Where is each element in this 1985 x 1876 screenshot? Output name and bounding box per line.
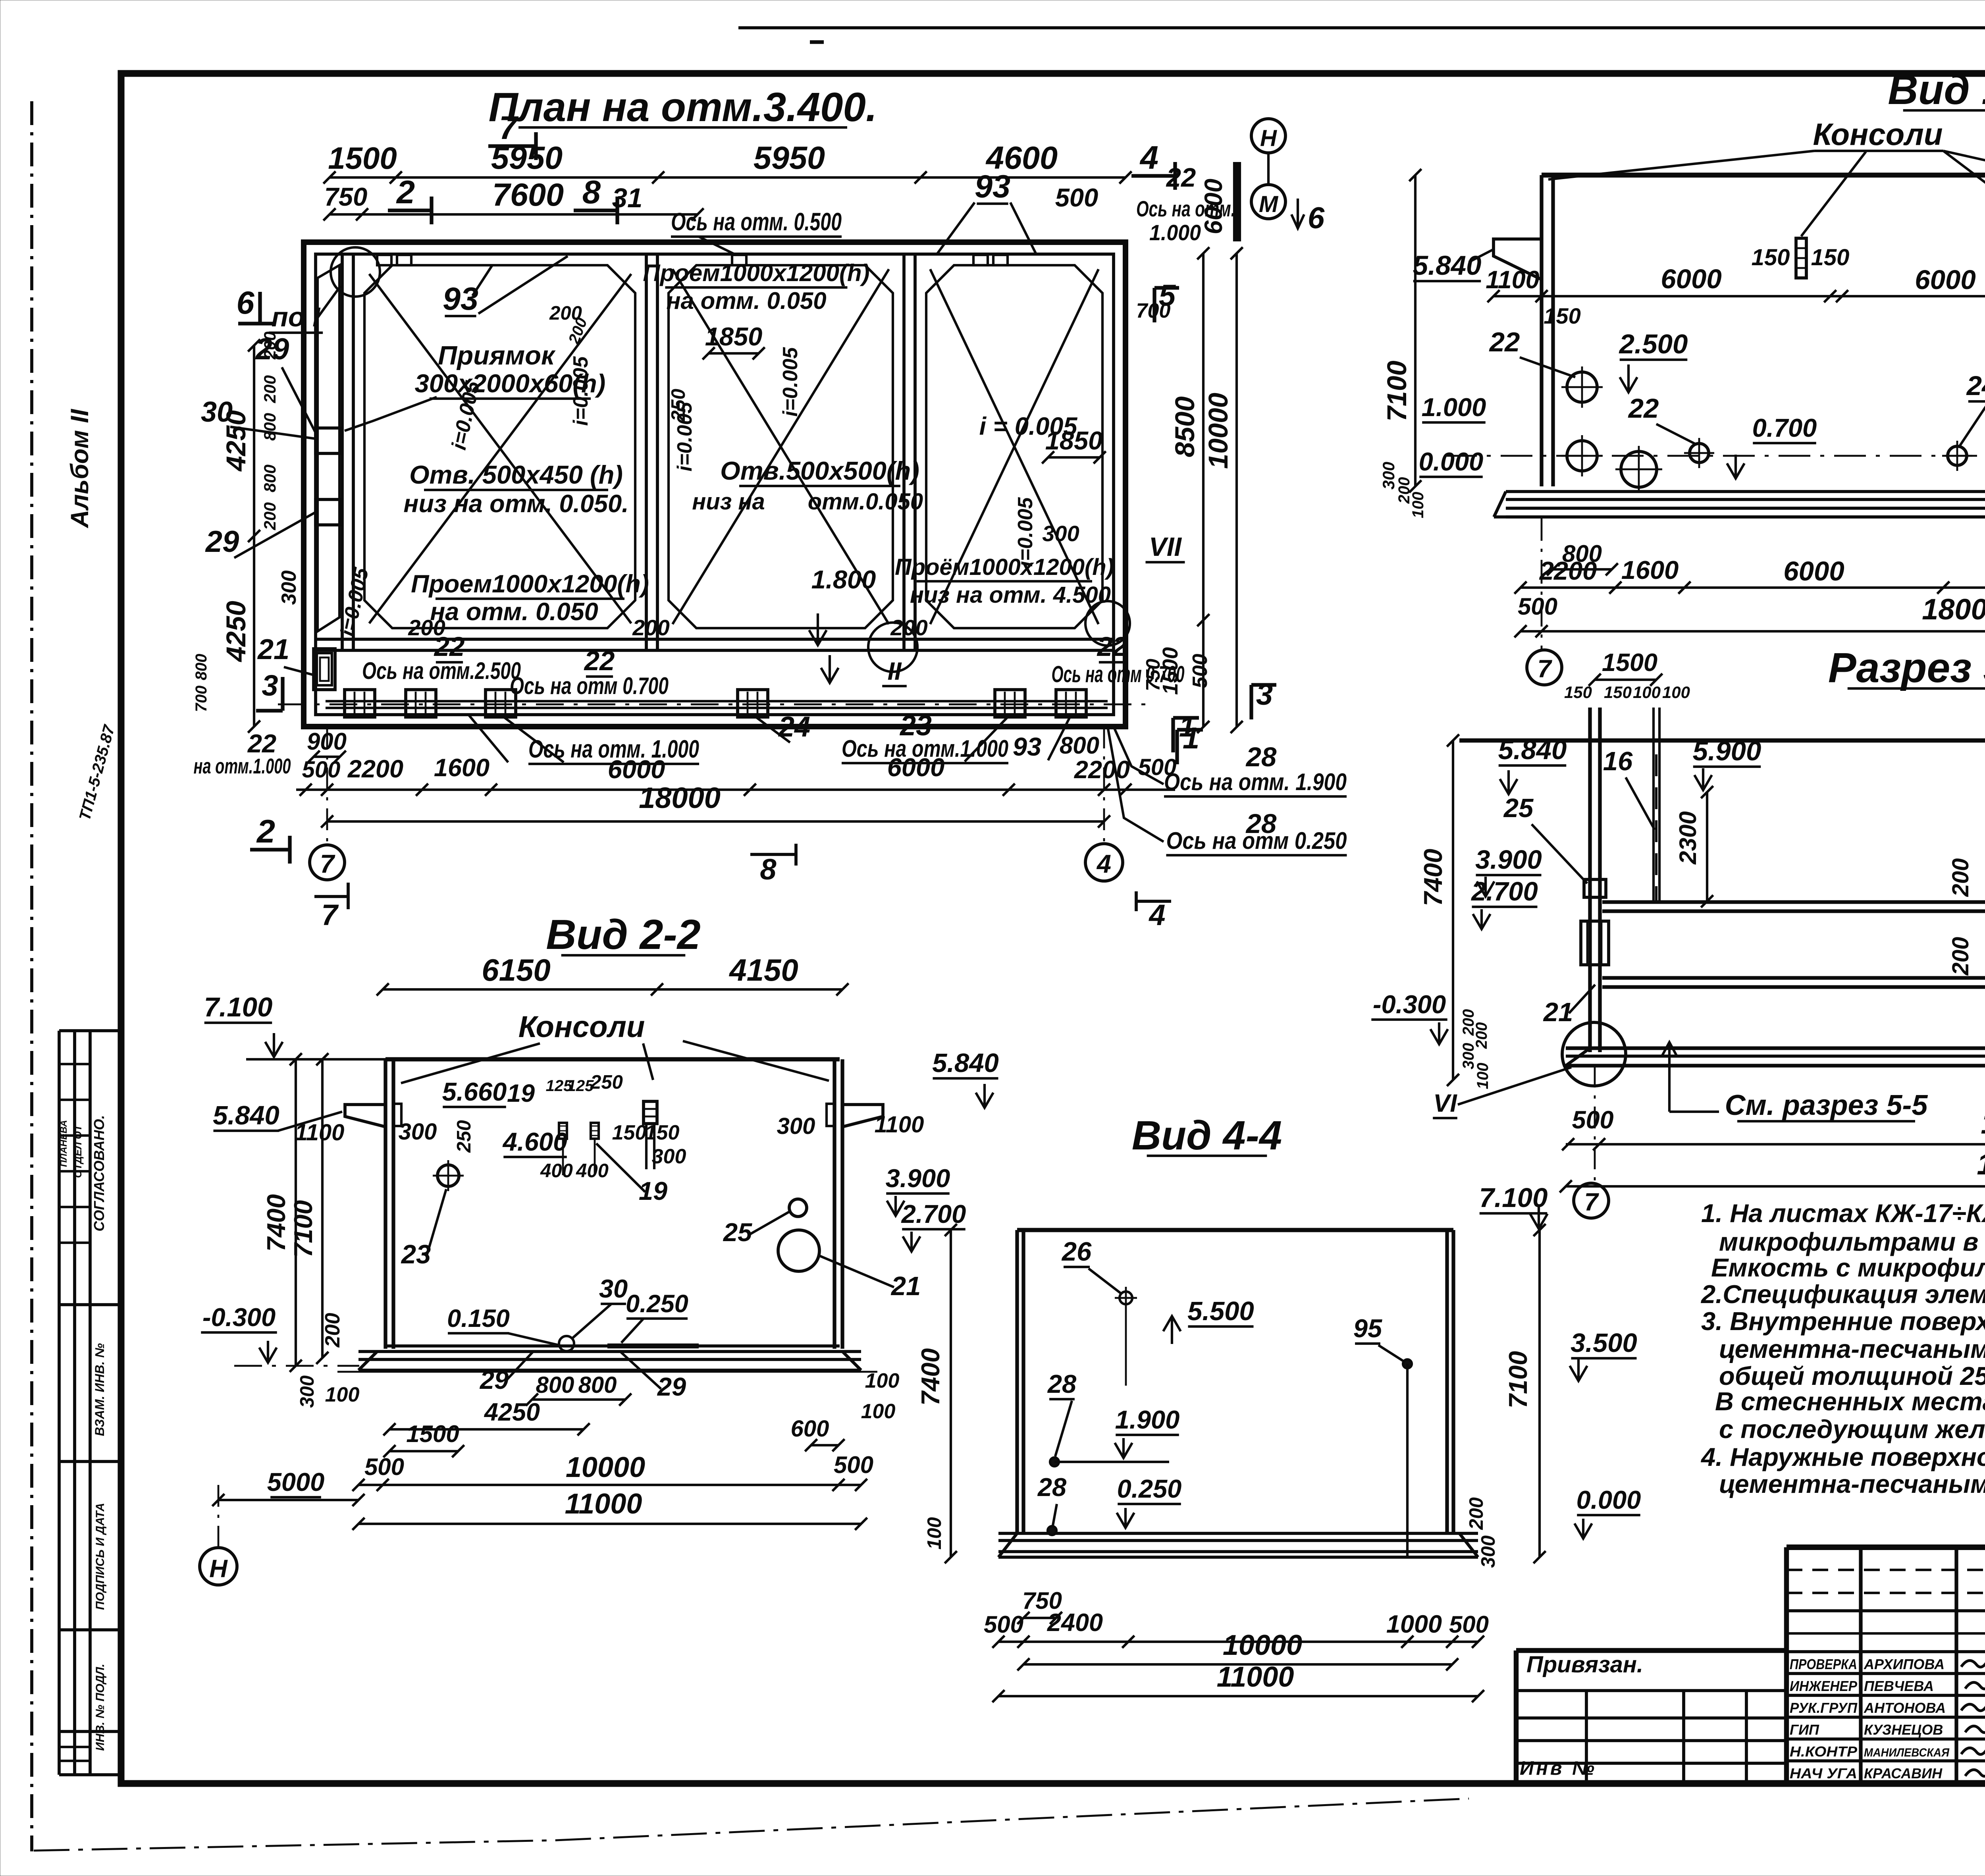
svg-text:150: 150	[1604, 683, 1632, 702]
svg-text:30: 30	[201, 396, 233, 428]
svg-text:6: 6	[236, 285, 254, 321]
svg-text:95: 95	[1353, 1314, 1382, 1343]
svg-text:3: 3	[1256, 678, 1273, 711]
svg-text:Отв.500х500(h): Отв.500х500(h)	[720, 456, 919, 485]
svg-text:Емкость с микрофильтрами в ося: Емкость с микрофильтрами в осях 11-14 зе…	[1711, 1253, 1985, 1282]
svg-text:200: 200	[260, 375, 279, 403]
svg-text:См. разрез 5-5: См. разрез 5-5	[1725, 1089, 1928, 1121]
svg-text:1000: 1000	[1386, 1610, 1442, 1638]
svg-text:150: 150	[1544, 303, 1580, 328]
svg-text:6000: 6000	[1783, 556, 1844, 586]
svg-text:100: 100	[924, 1517, 945, 1550]
svg-text:с последующим железнением.: с последующим железнением.	[1719, 1415, 1985, 1444]
svg-text:6000: 6000	[1915, 264, 1976, 295]
svg-text:ИНЖЕНЕР: ИНЖЕНЕР	[1790, 1678, 1858, 1694]
svg-text:7.100: 7.100	[1479, 1182, 1548, 1213]
svg-text:1.900: 1.900	[1115, 1405, 1180, 1434]
svg-text:500: 500	[1449, 1611, 1489, 1638]
svg-text:29: 29	[479, 1365, 509, 1394]
svg-text:25: 25	[1503, 793, 1534, 823]
svg-text:5000: 5000	[267, 1467, 325, 1496]
svg-text:8: 8	[760, 853, 777, 886]
svg-text:7100: 7100	[1382, 361, 1412, 422]
svg-text:100: 100	[1662, 683, 1690, 702]
svg-text:6: 6	[1308, 201, 1325, 235]
svg-text:Вид 4-4: Вид 4-4	[1132, 1112, 1282, 1158]
svg-text:1.000: 1.000	[1422, 393, 1486, 422]
svg-text:Альбом II: Альбом II	[66, 409, 94, 528]
svg-text:150: 150	[645, 1121, 680, 1144]
svg-text:цементна-песчаным раствором со: цементна-песчаным раствором состава 1:3.	[1719, 1469, 1985, 1498]
svg-text:300: 300	[1379, 462, 1398, 490]
svg-text:5.500: 5.500	[1187, 1296, 1254, 1326]
svg-text:2200: 2200	[347, 755, 403, 783]
svg-text:3.900: 3.900	[1475, 845, 1542, 875]
svg-text:цементна-песчаным раствором со: цементна-песчаным раствором состава 1:2.…	[1719, 1334, 1985, 1363]
svg-text:28: 28	[1047, 1369, 1077, 1398]
svg-text:3.500: 3.500	[1571, 1328, 1637, 1358]
svg-text:7: 7	[320, 849, 335, 878]
svg-text:-0.300: -0.300	[1373, 990, 1446, 1019]
svg-text:ПЕВЧЕВА: ПЕВЧЕВА	[1864, 1678, 1934, 1694]
svg-text:ГИП: ГИП	[1790, 1722, 1819, 1738]
svg-text:200: 200	[1948, 858, 1973, 897]
svg-text:Консоли: Консоли	[1813, 117, 1943, 152]
svg-text:АНТОНОВА: АНТОНОВА	[1864, 1700, 1946, 1716]
svg-text:4: 4	[1096, 849, 1111, 878]
svg-text:3. Внутренние поверхности емко: 3. Внутренние поверхности емкости торкре…	[1701, 1307, 1985, 1336]
svg-text:на отм. 0.050: на отм. 0.050	[666, 287, 826, 314]
svg-text:2: 2	[396, 174, 415, 210]
svg-text:300: 300	[297, 1375, 318, 1408]
svg-text:6000: 6000	[1661, 264, 1722, 294]
svg-text:0.150: 0.150	[447, 1305, 510, 1332]
svg-text:500: 500	[302, 757, 341, 783]
svg-text:19000: 19000	[1977, 1147, 1985, 1181]
svg-text:МАНИЛЕВСКАЯ: МАНИЛЕВСКАЯ	[1864, 1746, 1950, 1759]
svg-text:750: 750	[324, 182, 367, 211]
svg-text:ВЗАМ. ИНВ. №: ВЗАМ. ИНВ. №	[93, 1343, 107, 1436]
svg-text:600: 600	[791, 1416, 829, 1442]
svg-text:1600: 1600	[434, 754, 490, 782]
svg-text:10000: 10000	[1223, 1629, 1302, 1661]
svg-text:Н: Н	[209, 1555, 228, 1583]
svg-text:100: 100	[1633, 683, 1661, 702]
svg-text:800: 800	[578, 1372, 617, 1398]
svg-text:2300: 2300	[1675, 811, 1701, 864]
svg-text:800: 800	[1060, 732, 1099, 759]
svg-text:7: 7	[1584, 1188, 1599, 1216]
svg-text:4.600: 4.600	[502, 1127, 568, 1156]
svg-text:НАЧ УГА: НАЧ УГА	[1790, 1765, 1857, 1782]
svg-text:2200: 2200	[1074, 756, 1130, 784]
svg-text:6000: 6000	[608, 755, 665, 784]
svg-text:400: 400	[576, 1160, 609, 1182]
svg-text:i = 0.005: i = 0.005	[979, 413, 1078, 440]
svg-text:ОТДЕЛ ОТ: ОТДЕЛ ОТ	[72, 1124, 84, 1178]
svg-text:отм.0.050: отм.0.050	[808, 489, 923, 515]
svg-text:i=0.005: i=0.005	[1014, 497, 1037, 567]
svg-text:Вид 1-1: Вид 1-1	[1888, 66, 1985, 113]
svg-text:5.840: 5.840	[213, 1101, 279, 1130]
svg-text:10000: 10000	[566, 1452, 645, 1483]
svg-text:500: 500	[364, 1454, 404, 1480]
svg-text:Ось на отм 0.700: Ось на отм 0.700	[510, 673, 669, 699]
svg-text:1500: 1500	[406, 1421, 459, 1447]
svg-text:1100: 1100	[295, 1120, 345, 1145]
svg-text:8500: 8500	[1170, 396, 1200, 457]
svg-text:6000: 6000	[887, 753, 945, 782]
svg-text:по I: по I	[272, 302, 321, 332]
svg-text:4. Наружные поверхности емкост: 4. Наружные поверхности емкости затереть	[1700, 1442, 1985, 1471]
svg-text:150: 150	[1564, 683, 1592, 702]
svg-text:7: 7	[499, 109, 519, 146]
svg-text:6000: 6000	[1200, 179, 1228, 234]
svg-text:100: 100	[1409, 492, 1427, 519]
svg-text:300: 300	[399, 1119, 437, 1145]
svg-text:Приямок: Приямок	[438, 341, 556, 370]
svg-text:19: 19	[507, 1080, 535, 1107]
svg-text:100: 100	[861, 1400, 896, 1423]
svg-text:11000: 11000	[565, 1488, 642, 1520]
svg-text:25: 25	[723, 1218, 752, 1247]
svg-text:22: 22	[1628, 393, 1659, 424]
svg-text:7400: 7400	[916, 1348, 945, 1406]
svg-text:2.500: 2.500	[1619, 329, 1688, 359]
svg-text:1600: 1600	[1621, 555, 1679, 584]
svg-text:СОГЛАСОВАНО.: СОГЛАСОВАНО.	[91, 1115, 107, 1231]
svg-text:Ось на отм 0.700: Ось на отм 0.700	[1052, 661, 1185, 687]
svg-text:Привязан.: Привязан.	[1526, 1652, 1643, 1677]
svg-text:29: 29	[255, 332, 289, 366]
svg-text:низ на отм. 0.050.: низ на отм. 0.050.	[403, 490, 628, 518]
svg-text:Ось на отм 0.250: Ось на отм 0.250	[1166, 827, 1347, 854]
svg-text:22: 22	[1097, 631, 1128, 662]
svg-text:В стесненных местах штукатурка: В стесненных местах штукатурка наносится…	[1715, 1387, 1985, 1416]
svg-text:300: 300	[278, 571, 301, 605]
svg-text:Н: Н	[1260, 125, 1277, 151]
svg-text:29: 29	[205, 525, 239, 559]
svg-text:125: 125	[567, 1077, 594, 1095]
svg-text:i=0.005: i=0.005	[779, 347, 802, 416]
svg-text:21: 21	[257, 634, 289, 665]
svg-text:3: 3	[262, 669, 278, 702]
svg-text:7600: 7600	[492, 177, 564, 213]
svg-text:Проем1000х1200(h): Проем1000х1200(h)	[643, 260, 869, 286]
svg-text:7400: 7400	[262, 1194, 291, 1252]
svg-text:7100: 7100	[1503, 1351, 1532, 1409]
svg-text:7: 7	[321, 898, 339, 931]
svg-text:200: 200	[321, 1313, 344, 1348]
svg-text:2: 2	[256, 813, 275, 850]
svg-text:700: 700	[193, 686, 210, 712]
svg-text:Н.КОНТР: Н.КОНТР	[1790, 1743, 1858, 1760]
svg-text:VI: VI	[1433, 1089, 1457, 1117]
svg-text:4250: 4250	[221, 601, 251, 663]
svg-text:5.900: 5.900	[1693, 736, 1761, 766]
svg-text:500: 500	[1189, 654, 1212, 688]
svg-text:26: 26	[1061, 1237, 1092, 1267]
svg-text:1100: 1100	[875, 1112, 924, 1138]
svg-text:18000: 18000	[639, 781, 721, 814]
svg-text:микрофильтрами в осях 4-7.: микрофильтрами в осях 4-7.	[1719, 1227, 1985, 1256]
svg-text:800: 800	[536, 1372, 574, 1398]
svg-text:1.000: 1.000	[1149, 220, 1201, 245]
svg-text:0.000: 0.000	[1576, 1485, 1641, 1514]
svg-text:200: 200	[1948, 937, 1973, 976]
svg-text:10000: 10000	[1203, 393, 1233, 469]
svg-text:i=0.005: i=0.005	[569, 356, 592, 426]
svg-text:300: 300	[777, 1113, 815, 1139]
svg-text:КРАСАВИН: КРАСАВИН	[1864, 1765, 1943, 1782]
svg-text:ПРОВЕРКА: ПРОВЕРКА	[1790, 1656, 1857, 1672]
svg-text:300: 300	[1042, 521, 1079, 546]
svg-text:План на отм.3.400.: План на отм.3.400.	[489, 84, 877, 130]
svg-text:800: 800	[260, 413, 279, 441]
svg-text:0.250: 0.250	[1117, 1474, 1182, 1503]
svg-text:200: 200	[1466, 1497, 1487, 1530]
svg-text:2.700: 2.700	[1470, 877, 1538, 906]
svg-text:Проем1000х1200(h): Проем1000х1200(h)	[411, 570, 649, 598]
svg-text:29: 29	[657, 1372, 686, 1401]
svg-text:93: 93	[975, 169, 1010, 204]
svg-text:5.660: 5.660	[442, 1077, 507, 1106]
svg-text:150: 150	[1752, 245, 1790, 270]
svg-text:4250: 4250	[484, 1398, 540, 1426]
svg-text:100: 100	[865, 1369, 900, 1392]
svg-text:Инв №: Инв №	[1520, 1758, 1597, 1779]
svg-text:800: 800	[260, 465, 279, 492]
svg-text:на отм. 0.050: на отм. 0.050	[430, 598, 598, 626]
svg-text:0.700: 0.700	[1752, 413, 1817, 442]
svg-text:500: 500	[1572, 1106, 1613, 1134]
svg-text:200: 200	[632, 615, 669, 640]
svg-text:1: 1	[1179, 711, 1195, 743]
svg-text:250: 250	[668, 389, 689, 422]
svg-text:Ось на отм.2.500: Ось на отм.2.500	[362, 657, 521, 684]
svg-text:300: 300	[652, 1145, 686, 1168]
svg-text:200: 200	[890, 615, 927, 640]
svg-text:250: 250	[453, 1120, 475, 1153]
svg-text:II: II	[887, 657, 902, 685]
svg-text:22: 22	[584, 646, 615, 676]
svg-text:7.100: 7.100	[204, 992, 273, 1022]
svg-text:Отв. 500х450 (h): Отв. 500х450 (h)	[409, 460, 623, 489]
svg-text:VII: VII	[1149, 532, 1182, 562]
svg-text:1100: 1100	[1486, 266, 1539, 294]
svg-text:500: 500	[984, 1611, 1023, 1638]
svg-text:Ось на отм. 0.500: Ось на отм. 0.500	[671, 208, 842, 236]
svg-text:22: 22	[247, 729, 276, 758]
svg-text:общей толщиной 25 мм. С послед: общей толщиной 25 мм. С последующим желе…	[1719, 1361, 1985, 1390]
svg-text:250: 250	[590, 1072, 623, 1093]
svg-text:150: 150	[1811, 245, 1850, 270]
svg-text:ИНВ. № ПОДЛ.: ИНВ. № ПОДЛ.	[94, 1664, 107, 1751]
svg-text:24: 24	[1966, 370, 1985, 401]
svg-text:на отм.1.000: на отм.1.000	[194, 754, 291, 778]
svg-text:7400: 7400	[1418, 849, 1447, 906]
svg-text:РУК.ГРУП: РУК.ГРУП	[1790, 1700, 1858, 1716]
svg-text:3.900: 3.900	[886, 1164, 950, 1193]
svg-text:100: 100	[325, 1383, 360, 1406]
svg-text:22: 22	[1489, 327, 1520, 357]
svg-text:4: 4	[1139, 139, 1158, 176]
svg-text:100: 100	[1474, 1063, 1492, 1089]
svg-text:АРХИПОВА: АРХИПОВА	[1864, 1656, 1945, 1672]
svg-text:Консоли: Консоли	[518, 1010, 645, 1044]
svg-text:30: 30	[599, 1274, 628, 1303]
svg-text:6150: 6150	[482, 952, 551, 987]
svg-text:1.800: 1.800	[811, 565, 876, 594]
svg-text:0.000: 0.000	[1419, 447, 1484, 476]
svg-text:93: 93	[1013, 732, 1041, 761]
svg-text:ПЛАНЕВА: ПЛАНЕВА	[58, 1120, 69, 1167]
svg-text:21: 21	[890, 1271, 921, 1301]
svg-text:93: 93	[443, 281, 478, 317]
svg-text:ПОДПИСЬ И ДАТА: ПОДПИСЬ И ДАТА	[94, 1503, 107, 1610]
svg-text:18000: 18000	[1922, 593, 1985, 626]
svg-text:200: 200	[260, 502, 279, 530]
svg-text:500: 500	[1055, 183, 1098, 212]
svg-text:500: 500	[834, 1452, 873, 1478]
svg-text:Вид 2-2: Вид 2-2	[546, 911, 700, 958]
svg-text:5.840: 5.840	[1413, 250, 1482, 281]
svg-text:16: 16	[1603, 746, 1633, 776]
svg-text:400: 400	[540, 1160, 573, 1182]
svg-text:0.250: 0.250	[626, 1290, 688, 1318]
svg-text:7: 7	[1537, 655, 1552, 683]
svg-text:2.Спецификация элементов см. л: 2.Спецификация элементов см. лист КЖ-24.	[1700, 1280, 1985, 1309]
svg-text:4: 4	[1148, 898, 1165, 931]
svg-text:1. На листах КЖ-17÷КЖ-19 разра: 1. На листах КЖ-17÷КЖ-19 разработана емк…	[1701, 1199, 1985, 1228]
svg-text:800: 800	[193, 654, 210, 681]
svg-text:Проём1000х1200(h): Проём1000х1200(h)	[895, 554, 1114, 580]
svg-text:300: 300	[1478, 1535, 1499, 1568]
svg-text:2400: 2400	[1047, 1609, 1103, 1637]
svg-text:Ось на отм. 1.900: Ось на отм. 1.900	[1164, 769, 1347, 795]
svg-text:11000: 11000	[1217, 1661, 1294, 1693]
svg-text:28: 28	[1037, 1473, 1067, 1502]
svg-text:18000: 18000	[1981, 1107, 1985, 1140]
svg-text:28: 28	[1245, 742, 1277, 772]
svg-text:КУЗНЕЦОВ: КУЗНЕЦОВ	[1864, 1722, 1943, 1738]
svg-text:М: М	[1259, 191, 1279, 217]
svg-text:2200: 2200	[1539, 556, 1597, 585]
svg-text:5950: 5950	[754, 140, 825, 176]
svg-text:8: 8	[582, 174, 601, 210]
svg-text:7100: 7100	[289, 1200, 318, 1258]
svg-text:1850: 1850	[705, 322, 763, 351]
svg-text:1500: 1500	[328, 141, 397, 175]
svg-text:1500: 1500	[1602, 649, 1657, 677]
svg-text:низ на отм. 4.500: низ на отм. 4.500	[910, 582, 1111, 608]
svg-text:низ на: низ на	[692, 489, 765, 515]
svg-text:150: 150	[612, 1121, 647, 1144]
svg-text:-0.300: -0.300	[202, 1303, 276, 1332]
svg-text:500: 500	[1518, 593, 1557, 620]
svg-text:4150: 4150	[728, 952, 798, 987]
svg-text:5.840: 5.840	[932, 1048, 999, 1078]
svg-text:5.840: 5.840	[1498, 735, 1567, 765]
svg-text:700: 700	[1136, 299, 1171, 322]
svg-text:Разрез 3-3: Разрез 3-3	[1828, 644, 1985, 691]
